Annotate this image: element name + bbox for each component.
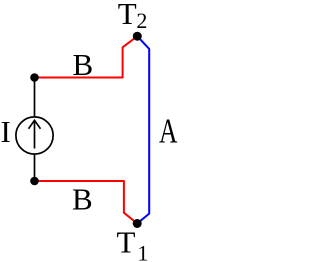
current source I: arrow head: [29, 120, 41, 129]
svg-text:B: B: [72, 181, 93, 216]
node dot: T1 junction: [133, 219, 142, 228]
current source I: circle: [16, 117, 53, 154]
node dot: T2 junction: [133, 32, 142, 41]
node dot: top-left: [30, 73, 39, 82]
svg-text:A: A: [159, 112, 178, 151]
svg-text:1: 1: [137, 241, 148, 262]
svg-text:I: I: [1, 114, 11, 149]
svg-text:B: B: [73, 47, 94, 82]
wire: top red B wire from left node to junction T2: [35, 36, 138, 77]
wire: bottom red B wire from left node to junction T1: [35, 181, 138, 224]
wire: black lead from top-left node to current source: [34, 78, 36, 117]
svg-text:T: T: [118, 0, 137, 31]
wire: blue A wire from T2 down to T1: [137, 36, 149, 223]
wire: black lead from current source to bottom-left node: [34, 155, 36, 181]
current source I: arrow shaft: [34, 122, 36, 149]
node dot: bottom-left: [30, 177, 39, 186]
svg-text:2: 2: [136, 8, 147, 33]
svg-text:T: T: [117, 225, 136, 260]
